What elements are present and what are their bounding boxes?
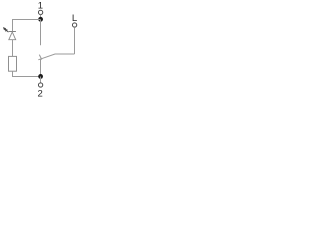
node B junction dot xyxy=(38,74,43,79)
wire node A to switch fixed contact xyxy=(40,20,42,46)
wire resistor to node B xyxy=(13,71,41,77)
switch S1 actuator tick xyxy=(39,55,42,60)
LED D1 cathode bar xyxy=(9,31,16,33)
terminal 1 xyxy=(38,10,42,14)
LED light arrow 1 xyxy=(4,28,7,31)
wire node A to LED branch xyxy=(13,20,41,32)
wire switch pivot to node B xyxy=(40,59,42,77)
terminal L xyxy=(72,23,76,27)
switch S1 blade xyxy=(38,54,74,60)
wire terminal1 to node A xyxy=(40,15,42,18)
node A junction dot xyxy=(38,17,43,22)
terminal 2 xyxy=(38,83,42,87)
resistor R1 xyxy=(9,56,17,71)
svg-text:2: 2 xyxy=(38,88,43,99)
wire terminal L to switch xyxy=(74,27,76,54)
wire node B to terminal 2 xyxy=(40,77,42,84)
LED D1 triangle xyxy=(9,32,16,40)
LED light arrow 2 xyxy=(5,29,8,32)
wire LED to resistor xyxy=(12,40,14,57)
svg-text:L: L xyxy=(72,13,78,24)
